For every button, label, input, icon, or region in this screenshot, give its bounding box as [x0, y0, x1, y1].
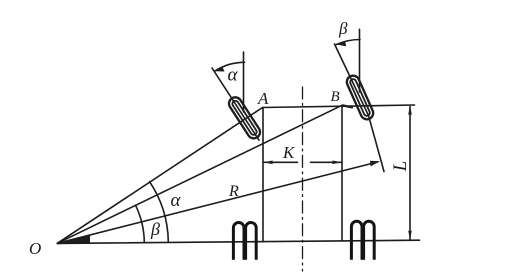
wire R radius line with arrow — [57, 162, 377, 243]
svg-text:β: β — [150, 219, 160, 239]
wire bottom rear axle line from O — [57, 240, 419, 243]
arrow L bottom — [408, 231, 412, 240]
svg-text:B: B — [331, 89, 340, 105]
svg-text:α: α — [228, 65, 239, 86]
arc alpha at wheel A — [214, 62, 244, 71]
svg-text:O: O — [29, 239, 41, 258]
wire left kingpin vertical A — [262, 108, 264, 242]
arrow K right — [332, 161, 341, 165]
wire wheel A vertical reference — [243, 52, 245, 112]
svg-text:α: α — [171, 190, 182, 211]
arc alpha at O — [150, 182, 169, 242]
wire top line A-B extended right — [263, 105, 415, 108]
svg-text:A: A — [257, 89, 269, 108]
wire right kingpin vertical B — [341, 105, 343, 241]
wire OA line — [57, 108, 262, 244]
wire wheel B vertical reference — [359, 29, 361, 92]
arrow beta arc wheel B — [336, 42, 346, 47]
rear wheel left dual — [233, 223, 256, 260]
dimension L vertical line — [409, 107, 411, 240]
svg-text:β: β — [338, 19, 348, 38]
node O convergence wedge — [57, 235, 91, 244]
front wheel A — [227, 95, 263, 141]
stub B corner to wheel — [342, 105, 353, 107]
wire wheel A plane line — [212, 68, 259, 140]
dimension K horizontal line — [264, 161, 298, 163]
arrow alpha arc wheel A — [214, 67, 224, 72]
arrow R line tip — [370, 161, 380, 167]
arrow K left — [264, 161, 273, 165]
svg-text:K: K — [282, 143, 296, 162]
node centerline dash-dot — [302, 87, 304, 271]
arc beta at wheel B — [336, 39, 360, 44]
wire wheel B plane line — [335, 44, 385, 172]
rear wheel right dual — [351, 221, 374, 259]
svg-text:L: L — [390, 161, 411, 173]
arc beta at O — [136, 205, 145, 242]
svg-text:R: R — [228, 183, 239, 200]
wire OB line — [57, 105, 342, 243]
arrow L top — [408, 106, 412, 115]
front wheel B — [345, 74, 375, 122]
